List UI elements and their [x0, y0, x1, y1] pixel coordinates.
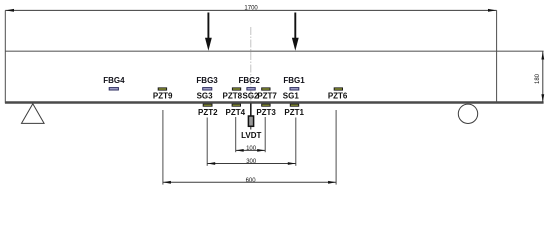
beam left edge / 1700 left extension line: [4, 10, 6, 103]
svg-text:1700: 1700: [244, 6, 258, 12]
svg-text:PZT8: PZT8: [223, 92, 243, 101]
dimension 600 left extension line: [162, 110, 164, 185]
beam top edge: [5, 50, 544, 52]
svg-text:100: 100: [246, 146, 257, 152]
LVDT stem: [250, 104, 252, 117]
dimension 600 right arrowhead: [328, 181, 336, 184]
dimension 100 left arrowhead: [236, 149, 244, 152]
load arrow left head: [205, 38, 212, 51]
svg-text:PZT3: PZT3: [256, 108, 276, 117]
roller support circle (right): [458, 104, 477, 123]
dimension 300 right arrowhead: [288, 162, 296, 165]
FBG2 sensor rectangle: [247, 88, 255, 90]
svg-text:FBG3: FBG3: [196, 76, 218, 85]
load arrow left shaft: [207, 13, 209, 40]
PZT3 sensor rectangle (bottom face): [262, 104, 270, 106]
dimension 100 right arrowhead: [257, 149, 265, 152]
dimension 180 line (right side): [542, 51, 544, 102]
dimension 1700 line: [5, 9, 496, 11]
FBG3 sensor rectangle: [203, 88, 212, 90]
svg-text:PZT4: PZT4: [226, 108, 246, 117]
PZT4 sensor rectangle (bottom face): [232, 104, 240, 106]
PZT6 sensor rectangle: [334, 88, 342, 90]
dimension 300 left arrowhead: [207, 162, 215, 165]
load arrow right shaft: [294, 13, 296, 40]
dimension 300 right extension line: [295, 118, 297, 166]
dimension 180 top arrowhead: [541, 52, 544, 60]
PZT7 sensor rectangle: [262, 88, 270, 90]
svg-text:FBG4: FBG4: [103, 76, 125, 85]
dimension 180 bottom arrowhead: [541, 94, 544, 102]
dimension 1700 left arrowhead: [5, 9, 14, 12]
svg-text:300: 300: [246, 159, 257, 165]
dimension 600 line: [163, 181, 336, 183]
svg-text:600: 600: [246, 178, 257, 184]
PZT2 sensor rectangle (bottom face): [203, 104, 212, 106]
svg-text:PZT9: PZT9: [153, 92, 173, 101]
beam bottom edge: [5, 101, 544, 103]
svg-text:LVDT: LVDT: [241, 131, 261, 140]
svg-text:FBG2: FBG2: [239, 76, 261, 85]
svg-text:SG1: SG1: [283, 92, 300, 101]
PZT1 sensor rectangle (bottom face): [290, 104, 298, 106]
pin support triangle (left): [22, 104, 45, 124]
PZT8 sensor rectangle: [232, 88, 240, 90]
FBG1 sensor rectangle: [290, 88, 299, 90]
dimension 100 right extension line: [264, 117, 266, 152]
svg-text:PZT7: PZT7: [257, 92, 277, 101]
load arrow right head: [292, 38, 299, 51]
svg-text:180: 180: [535, 73, 541, 84]
dimension 600 left arrowhead: [163, 181, 171, 184]
dimension 300 line: [207, 163, 296, 165]
PZT9 sensor rectangle: [158, 88, 166, 90]
svg-text:FBG1: FBG1: [283, 76, 305, 85]
svg-text:PZT2: PZT2: [198, 108, 218, 117]
centerline (beam mid-span dash-dot): [250, 27, 252, 114]
LVDT body: [248, 116, 253, 126]
LVDT bottom tick: [250, 127, 252, 130]
dimension 600 right extension line: [335, 110, 337, 185]
beam right edge / 1700 right extension line: [496, 10, 498, 103]
dimension 300 left extension line: [206, 118, 208, 166]
svg-text:PZT6: PZT6: [328, 92, 348, 101]
FBG4 sensor rectangle: [109, 88, 118, 90]
dimension 100 line: [236, 149, 266, 151]
svg-text:PZT1: PZT1: [284, 108, 304, 117]
dimension 100 left extension line: [235, 117, 237, 152]
svg-text:SG3: SG3: [197, 92, 214, 101]
dimension 1700 right arrowhead: [488, 9, 497, 12]
